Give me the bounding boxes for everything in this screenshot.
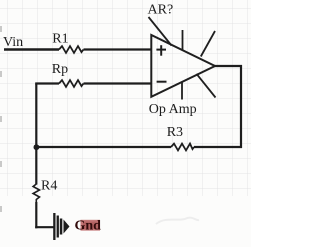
resistor R3 bbox=[171, 144, 194, 151]
wire feedback right segment bbox=[194, 146, 242, 148]
wire Vin to R1 bbox=[4, 48, 59, 50]
wire corner to Rp bbox=[35, 82, 59, 84]
op-amp strobe pin (lower right diagonal) bbox=[197, 74, 216, 98]
resistor R1 bbox=[59, 46, 84, 53]
wire op-amp output bbox=[214, 65, 242, 67]
svg-text:Rp: Rp bbox=[52, 62, 68, 77]
op-amp V- pin (vertical) bbox=[181, 82, 183, 100]
svg-text:R1: R1 bbox=[52, 31, 68, 46]
ground symbol bar 3 bbox=[60, 219, 63, 235]
label Gnd highlight bbox=[81, 220, 101, 231]
ground symbol wedge bbox=[64, 220, 70, 234]
op-amp offset pin (upper right diagonal) bbox=[201, 31, 215, 57]
op-amp + input marking bbox=[156, 49, 166, 51]
svg-text:R3: R3 bbox=[167, 125, 183, 140]
schematic sheet background bbox=[0, 0, 251, 247]
wire R4 to ground bbox=[35, 202, 37, 228]
wire R1 to op-amp + input bbox=[84, 48, 153, 50]
svg-text:R4: R4 bbox=[41, 179, 57, 194]
svg-text:Gnd: Gnd bbox=[75, 218, 102, 233]
ground symbol bar 2 bbox=[57, 216, 59, 238]
op-amp - input marking bbox=[157, 81, 167, 83]
wire inverting node vertical bbox=[35, 84, 37, 185]
resistor R4 bbox=[33, 184, 39, 202]
faint pencil smudge bbox=[156, 218, 199, 224]
op-amp V+ pin (vertical) bbox=[182, 30, 184, 50]
wire output down right side bbox=[240, 65, 242, 148]
ground symbol bar 1 bbox=[53, 213, 55, 240]
svg-text:Op Amp: Op Amp bbox=[149, 102, 197, 117]
left margin tick marks bbox=[0, 26, 2, 32]
svg-text:Vin: Vin bbox=[3, 35, 23, 50]
wire Rp to op-amp - input bbox=[84, 82, 153, 84]
resistor Rp bbox=[59, 80, 84, 87]
op-amp offset pin (upper left diagonal) bbox=[149, 17, 172, 46]
op-amp U1 triangle body bbox=[151, 35, 215, 97]
wire feedback left segment bbox=[35, 146, 171, 148]
svg-text:AR?: AR? bbox=[148, 2, 174, 17]
junction dot bbox=[34, 144, 40, 150]
